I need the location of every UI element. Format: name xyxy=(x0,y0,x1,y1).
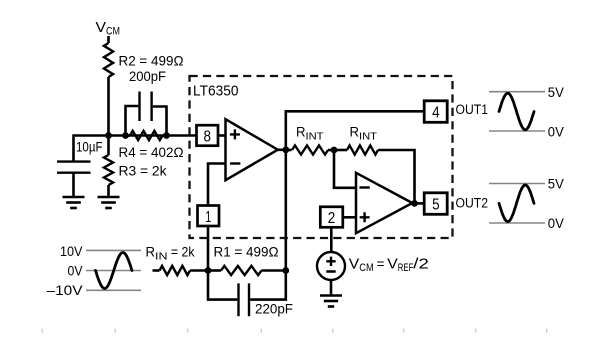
pin 8 xyxy=(197,125,219,146)
decorative xyxy=(42,329,548,333)
node junction A xyxy=(105,132,112,139)
svg-text:5: 5 xyxy=(432,197,440,214)
svg-text:R1 = 499Ω: R1 = 499Ω xyxy=(214,244,279,260)
svg-text:OUT2: OUT2 xyxy=(456,195,489,210)
svg-text:5V: 5V xyxy=(548,85,564,100)
svg-text:–10V: –10V xyxy=(47,283,83,298)
node U1 output xyxy=(282,146,289,153)
capacitor 10uF xyxy=(57,160,91,162)
input waveform levels xyxy=(86,250,141,290)
wire main top horizontal xyxy=(74,134,197,137)
node junction B xyxy=(122,132,129,139)
svg-text:10µF: 10µF xyxy=(76,139,103,155)
op-amp U2 xyxy=(356,173,412,233)
LT6350 dashed box xyxy=(190,76,453,238)
svg-text:5V: 5V xyxy=(548,177,564,192)
ground under 10uF xyxy=(63,197,85,208)
svg-text:2: 2 xyxy=(328,210,336,227)
svg-text:4: 4 xyxy=(432,105,440,122)
svg-text:0V: 0V xyxy=(548,125,564,140)
pin 2 xyxy=(320,207,343,228)
op-amp U1 xyxy=(226,119,278,180)
wire from VCM to R2 xyxy=(107,36,110,43)
node R1 right xyxy=(282,267,289,274)
resistor R3 xyxy=(107,136,110,156)
wire to 10uF cap xyxy=(72,134,75,160)
pin 4 xyxy=(424,101,447,123)
OUT1 sine wave xyxy=(499,93,534,130)
wire U1 output feedback down xyxy=(284,150,287,271)
resistor R4 xyxy=(126,134,131,137)
input sine wave xyxy=(96,253,133,289)
svg-text:10V: 10V xyxy=(60,244,83,259)
resistor RIN xyxy=(160,266,191,275)
node input junction xyxy=(205,267,212,274)
wire input xyxy=(153,269,160,272)
svg-text:200pF: 200pF xyxy=(129,68,166,84)
wire to pin 4 xyxy=(286,111,424,150)
ground under R3 xyxy=(98,197,120,208)
svg-text:8: 8 xyxy=(204,129,212,146)
wire R2 bottom to main node xyxy=(107,77,110,136)
resistor RINT second xyxy=(334,149,347,152)
svg-text:OUT1: OUT1 xyxy=(456,102,489,117)
svg-text:0V: 0V xyxy=(548,216,564,231)
svg-text:LT6350: LT6350 xyxy=(193,82,239,99)
pin 1 xyxy=(198,206,220,227)
wire RINT2 to output node xyxy=(378,150,415,203)
wire U1 inverting input xyxy=(208,164,226,206)
svg-text:R3 = 2k: R3 = 2k xyxy=(119,163,168,179)
svg-text:R2 = 499Ω: R2 = 499Ω xyxy=(119,53,184,69)
svg-text:1: 1 xyxy=(205,209,211,226)
ground under VCM source xyxy=(320,296,342,307)
pin 5 xyxy=(424,193,447,215)
svg-text:R4 = 402Ω: R4 = 402Ω xyxy=(119,144,184,160)
capacitor 220pF xyxy=(208,271,237,300)
svg-text:220pF: 220pF xyxy=(255,301,293,316)
OUT2 sine wave xyxy=(499,185,534,222)
resistor R2 xyxy=(104,43,113,77)
resistor RINT first xyxy=(286,149,292,152)
node mid RINT xyxy=(331,147,338,154)
node junction C xyxy=(163,132,170,139)
wire to U2 inverting input xyxy=(334,150,356,188)
OUT2 waveform levels xyxy=(489,184,545,224)
capacitor 200pF xyxy=(126,106,139,136)
wire U1 output to node xyxy=(277,149,286,152)
voltage source VCM xyxy=(317,252,345,280)
node U2 output xyxy=(412,202,425,205)
OUT1 waveform levels xyxy=(489,92,545,131)
resistor R1 xyxy=(208,269,221,272)
svg-text:0V: 0V xyxy=(68,264,83,279)
